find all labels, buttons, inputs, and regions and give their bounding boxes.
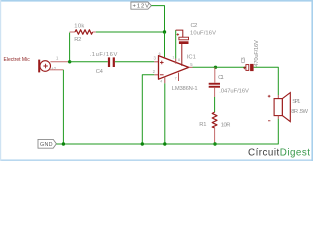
op-amp IC1 LM386N-1 (159, 56, 189, 80)
wire output junction to C3 (216, 66, 246, 68)
svg-text:R2: R2 (74, 37, 81, 43)
svg-text:7: 7 (175, 77, 177, 81)
junction R1 ground (213, 142, 216, 145)
speaker SP1 (274, 93, 290, 122)
svg-text:.1uF/16V: .1uF/16V (90, 52, 118, 58)
svg-text:10R: 10R (221, 123, 231, 129)
svg-text:+12V: +12V (133, 4, 150, 10)
svg-text:8: 8 (178, 58, 180, 62)
junction pin4 ground (163, 142, 166, 145)
ground tag GND (38, 139, 56, 148)
svg-text:Electret Mic: Electret Mic (4, 57, 31, 63)
svg-text:4: 4 (160, 79, 162, 83)
pin 7 stub (178, 73, 180, 81)
svg-text:IC1: IC1 (187, 54, 196, 60)
ground rail wire (56, 143, 215, 145)
speaker minus mark (268, 120, 270, 122)
wire mic pin2 to ground rail (62, 70, 64, 144)
capacitor C4 (108, 57, 115, 67)
mic pin1 stub (50, 61, 69, 63)
wire R2 left lead down to mic node (69, 33, 71, 62)
wire C3 to speaker (254, 67, 279, 95)
svg-text:CírcuitDigest: CírcuitDigest (248, 147, 310, 158)
junction mic ground (62, 142, 65, 145)
resistor R1 (212, 112, 217, 128)
mic pin2 stub (49, 69, 63, 71)
junction +12V node (163, 30, 166, 33)
microphone MIC1 (38, 60, 50, 73)
wire speaker to ground rail (215, 119, 278, 144)
speaker top stub (277, 95, 279, 99)
svg-text:LM386N-1: LM386N-1 (172, 86, 198, 92)
svg-text:SP1: SP1 (292, 99, 300, 105)
junction mic/R2 node (68, 60, 71, 63)
minus input mark (160, 74, 164, 76)
supply tag +12V (131, 2, 152, 10)
border frame (0, 0, 313, 2)
pin 3 stub (154, 61, 158, 63)
svg-text:.047uF/16V: .047uF/16V (219, 89, 249, 95)
junction output node (214, 66, 217, 69)
svg-text:10uF/16V: 10uF/16V (190, 30, 216, 36)
svg-text:10k: 10k (74, 24, 84, 30)
capacitor C1 (209, 83, 220, 88)
pin 6 stub (164, 57, 166, 60)
svg-text:470uF/16V: 470uF/16V (254, 40, 260, 67)
svg-text:C4: C4 (96, 69, 104, 75)
wire +12V node down to pin 6 (164, 32, 166, 57)
plus input mark (160, 61, 164, 65)
wire C1 to R1 (214, 88, 216, 97)
wire node to C4 (70, 61, 108, 63)
svg-text:C1: C1 (218, 75, 224, 81)
wire C4 to pin 3 (115, 61, 154, 63)
svg-text:C3: C3 (241, 57, 247, 63)
speaker bottom stub (277, 116, 279, 119)
wire junction down to C1 (214, 67, 216, 82)
capacitor C3 (243, 64, 254, 71)
pin 4 stub (164, 77, 166, 84)
wire +12V tag to junction (151, 6, 164, 32)
svg-text:C2: C2 (191, 23, 198, 29)
pin 1 stub (175, 59, 177, 64)
svg-text:GND: GND (40, 142, 53, 148)
pin 2 stub (154, 74, 158, 76)
capacitor C2 (176, 30, 189, 44)
pin 5 output stub (189, 66, 193, 68)
pin 1 gain wire from C2 (175, 30, 177, 58)
resistor R2 (70, 31, 75, 33)
wire R2 right to +12V node (96, 31, 165, 33)
speaker plus mark (268, 95, 271, 98)
svg-text:R1: R1 (199, 122, 206, 128)
junction pin2 ground (141, 142, 144, 145)
pin 8 stub / C2 bottom lead (181, 44, 183, 66)
wire output to junction (193, 66, 216, 68)
svg-text:1: 1 (172, 56, 174, 60)
wire pin 4 to ground rail (164, 83, 166, 144)
wire pin 2 to ground rail (142, 75, 154, 144)
svg-text:8R .5W: 8R .5W (291, 109, 308, 115)
